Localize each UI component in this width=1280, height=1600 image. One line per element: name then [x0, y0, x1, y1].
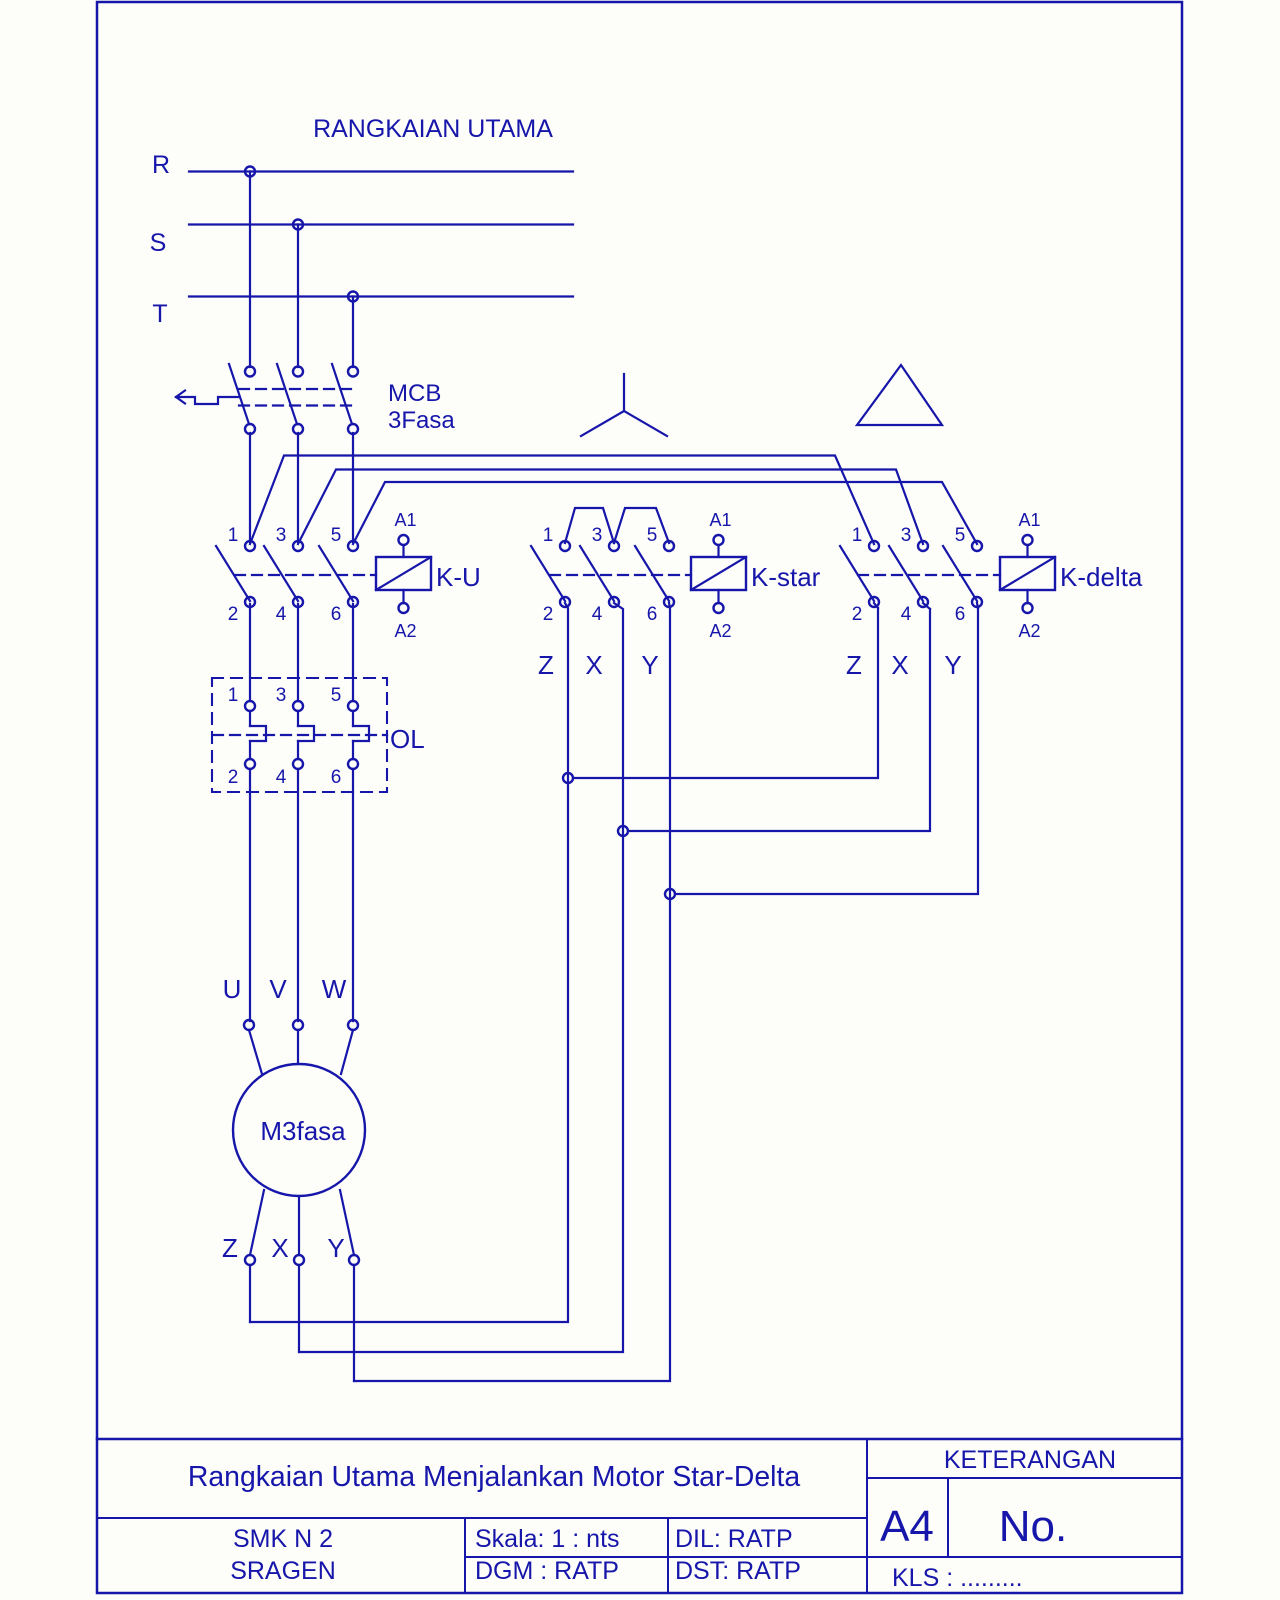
- svg-text:1: 1: [852, 525, 863, 546]
- stub motor body to Y: [340, 1190, 354, 1255]
- motor terminal U: [244, 1020, 254, 1030]
- svg-text:No.: No.: [999, 1502, 1067, 1551]
- svg-text:DIL: RATP: DIL: RATP: [675, 1525, 793, 1553]
- svg-text:3: 3: [276, 685, 287, 706]
- svg-text:U: U: [223, 974, 242, 1004]
- svg-text:5: 5: [647, 525, 658, 546]
- svg-text:Skala: 1 : nts: Skala: 1 : nts: [475, 1525, 620, 1553]
- wire node Y to K-delta 6: [675, 608, 978, 894]
- star symbol: [581, 374, 667, 436]
- contactor K-U coil K-U: [376, 557, 431, 590]
- stub motor body to X: [298, 1196, 300, 1255]
- svg-text:A1: A1: [1018, 510, 1040, 530]
- node S tap: [293, 220, 303, 230]
- OL heater element pin 3: [276, 685, 314, 759]
- svg-text:1: 1: [228, 685, 239, 706]
- svg-text:K-star: K-star: [751, 562, 821, 592]
- svg-text:2: 2: [228, 604, 239, 625]
- wire motor X down: [298, 1265, 300, 1352]
- svg-text:6: 6: [331, 767, 342, 788]
- contactor K-star contact blade 3-4: [580, 546, 614, 601]
- phase line T: [189, 295, 573, 297]
- contactor K-star contact pin 4: [592, 597, 619, 625]
- motor terminal V: [293, 1020, 303, 1030]
- contactor K-U contact pin 1: [228, 525, 255, 551]
- wire OL 2 to motor U: [249, 769, 251, 1021]
- wire K-delta pin 6 jog: [977, 603, 978, 608]
- stub W to motor body: [341, 1030, 353, 1074]
- svg-text:5: 5: [331, 525, 342, 546]
- contactor K-U contact blade 1-2: [216, 546, 250, 601]
- svg-text:S: S: [150, 229, 167, 257]
- node R tap: [245, 167, 255, 177]
- wire R down to MCB pole 1: [249, 172, 251, 368]
- svg-text:K-delta: K-delta: [1060, 562, 1143, 592]
- svg-text:3: 3: [276, 525, 287, 546]
- svg-text:4: 4: [592, 604, 603, 625]
- wire S down to MCB pole 2: [297, 225, 299, 368]
- svg-text:Y: Y: [944, 650, 961, 680]
- OL heater element pin 5: [331, 685, 369, 759]
- svg-text:Z: Z: [846, 650, 862, 680]
- svg-text:DST: RATP: DST: RATP: [675, 1557, 801, 1585]
- svg-text:2: 2: [543, 604, 554, 625]
- stub V to motor body: [297, 1030, 299, 1064]
- wire OL 4 to motor V: [297, 769, 299, 1021]
- delta symbol: [857, 365, 942, 425]
- svg-text:Z: Z: [538, 650, 554, 680]
- svg-text:SMK N 2: SMK N 2: [233, 1525, 333, 1553]
- svg-text:SRAGEN: SRAGEN: [230, 1557, 336, 1585]
- contactor K-delta contact blade 1-2: [840, 546, 874, 601]
- MCB pole 3 contact: [332, 364, 358, 434]
- svg-text:1: 1: [543, 525, 554, 546]
- svg-text:3: 3: [592, 525, 603, 546]
- motor terminal W: [348, 1020, 358, 1030]
- OL pin 6: [331, 759, 358, 788]
- svg-text:DGM : RATP: DGM : RATP: [475, 1557, 619, 1585]
- motor M3fasa: [233, 1064, 365, 1196]
- contactor K-star contact blade 1-2: [531, 546, 565, 601]
- svg-text:5: 5: [331, 685, 342, 706]
- wire K-star 6 to node Y to motor Y: [354, 603, 670, 1381]
- title block: [97, 1439, 1182, 1593]
- svg-text:A2: A2: [709, 621, 731, 641]
- contactor K-delta contact pin 2: [852, 597, 879, 625]
- svg-text:6: 6: [647, 604, 658, 625]
- svg-text:A2: A2: [1018, 621, 1040, 641]
- svg-text:5: 5: [955, 525, 966, 546]
- contactor K-delta contact pin 3: [901, 525, 928, 551]
- svg-text:4: 4: [276, 767, 287, 788]
- wire motor Z down: [249, 1265, 251, 1322]
- svg-text:A4: A4: [880, 1502, 934, 1551]
- svg-text:Y: Y: [641, 650, 658, 680]
- svg-text:A1: A1: [709, 510, 731, 530]
- contactor K-delta contact pin 4: [901, 597, 928, 625]
- wire K-U 2 to OL 1: [249, 604, 251, 701]
- svg-text:4: 4: [276, 604, 287, 625]
- node Z junction: [563, 773, 573, 783]
- MCB trip arrow: [176, 391, 239, 405]
- node X junction: [618, 826, 628, 836]
- wire node Z to K-delta 2: [573, 608, 878, 778]
- contactor K-U coil terminal A1: [394, 510, 416, 557]
- contactor K-delta contact blade 3-4: [889, 546, 923, 601]
- contactor K-delta contact pin 5: [955, 525, 982, 551]
- svg-text:W: W: [322, 974, 347, 1004]
- node Y junction: [665, 889, 675, 899]
- svg-text:6: 6: [955, 604, 966, 625]
- wire K-star 4 to node X to motor X: [299, 603, 623, 1352]
- svg-text:R: R: [152, 151, 170, 179]
- contactor K-U contact pin 3: [276, 525, 303, 551]
- svg-text:3Fasa: 3Fasa: [388, 407, 455, 434]
- svg-text:X: X: [271, 1233, 288, 1263]
- wire OL 6 to motor W: [352, 769, 354, 1021]
- contactor K-star contact pin 1: [543, 525, 570, 551]
- svg-text:M3fasa: M3fasa: [260, 1116, 346, 1146]
- wire K-delta pin 2 jog: [874, 603, 878, 608]
- stub motor body to Z: [250, 1190, 264, 1255]
- contactor K-U linkage dashed line: [235, 574, 376, 576]
- svg-text:T: T: [152, 300, 167, 328]
- MCB pole 2 contact: [277, 364, 303, 434]
- contactor K-delta contact blade 5-6: [943, 546, 977, 601]
- contactor K-U contact pin 5: [331, 525, 358, 551]
- contactor K-U contact pin 4: [276, 597, 303, 625]
- svg-text:RANGKAIAN UTAMA: RANGKAIAN UTAMA: [313, 115, 553, 143]
- contactor K-star contact pin 2: [543, 597, 570, 625]
- overload relay OL dashed box: [212, 678, 387, 792]
- contactor K-U contact blade 5-6: [319, 546, 353, 601]
- svg-text:X: X: [585, 650, 602, 680]
- wire K-delta pin 4 jog: [923, 603, 930, 609]
- svg-text:A2: A2: [394, 621, 416, 641]
- svg-text:4: 4: [901, 604, 912, 625]
- wire T down to MCB pole 3: [352, 297, 354, 368]
- wire K-U 4 to OL 3: [297, 604, 299, 701]
- wire phase R bus to K-delta pin 1: [250, 456, 874, 545]
- OL pin 2: [228, 759, 255, 788]
- svg-text:V: V: [269, 974, 287, 1004]
- svg-text:OL: OL: [390, 724, 425, 754]
- OL heater element pin 1: [228, 685, 266, 759]
- contactor K-star coil terminal A1: [709, 510, 731, 557]
- contactor K-star contact pin 5: [647, 525, 674, 551]
- svg-text:MCB: MCB: [388, 380, 441, 407]
- contactor K-delta coil K-delta: [1000, 557, 1055, 590]
- motor terminal X: [294, 1255, 304, 1265]
- wire phase T bus to K-delta pin 5: [353, 482, 977, 544]
- wire MCB 4 to K-U pin 3: [297, 433, 299, 542]
- MCB pole 1 contact: [229, 364, 255, 434]
- svg-text:KLS : .........: KLS : .........: [892, 1564, 1023, 1592]
- svg-text:2: 2: [852, 604, 863, 625]
- contactor K-star coil terminal A2: [709, 590, 731, 641]
- contactor K-delta contact pin 6: [955, 597, 982, 625]
- contactor K-star contact blade 5-6: [635, 546, 669, 601]
- K-star star-point bridge 1-3: [565, 508, 614, 543]
- contactor K-U contact blade 3-4: [264, 546, 298, 601]
- contactor K-delta coil terminal A1: [1018, 510, 1040, 557]
- phase line R: [189, 170, 573, 172]
- svg-text:Y: Y: [327, 1233, 344, 1263]
- node T tap: [348, 292, 358, 302]
- motor terminal Z: [245, 1255, 255, 1265]
- svg-text:6: 6: [331, 604, 342, 625]
- wire MCB 6 to K-U pin 5: [352, 433, 354, 542]
- contactor K-delta contact pin 1: [852, 525, 879, 551]
- stub U to motor body: [249, 1030, 262, 1074]
- svg-text:K-U: K-U: [436, 562, 481, 592]
- wire phase S bus to K-delta pin 3: [298, 470, 923, 545]
- wire K-U 6 to OL 5: [352, 604, 354, 701]
- svg-text:1: 1: [228, 525, 239, 546]
- contactor K-delta coil terminal A2: [1018, 590, 1040, 641]
- OL linkage dashed line: [213, 734, 387, 736]
- contactor K-U coil terminal A2: [394, 590, 416, 641]
- svg-text:3: 3: [901, 525, 912, 546]
- motor terminal Y: [349, 1255, 359, 1265]
- svg-text:Rangkaian Utama Menjalankan Mo: Rangkaian Utama Menjalankan Motor Star-D…: [188, 1461, 800, 1493]
- svg-text:A1: A1: [394, 510, 416, 530]
- phase line S: [189, 223, 573, 225]
- MCB label: [388, 380, 455, 434]
- K-star star-point bridge 3-5: [614, 508, 669, 543]
- svg-text:KETERANGAN: KETERANGAN: [944, 1446, 1116, 1474]
- wire motor Y down: [353, 1265, 355, 1381]
- svg-text:Z: Z: [222, 1233, 238, 1263]
- OL pin 4: [276, 759, 303, 788]
- contactor K-U contact pin 2: [228, 597, 255, 625]
- wire MCB 2 to K-U pin 1: [249, 433, 251, 542]
- contactor K-star contact pin 3: [592, 525, 619, 551]
- contactor K-star contact pin 6: [647, 597, 674, 625]
- contactor K-star coil K-star: [691, 557, 746, 590]
- label SMK N 2 SRAGEN: [230, 1525, 336, 1585]
- contactor K-star linkage dashed line: [550, 574, 691, 576]
- contactor K-delta linkage dashed line: [858, 574, 1000, 576]
- MCB linkage dashed lines: [239, 389, 355, 406]
- svg-text:2: 2: [228, 767, 239, 788]
- svg-text:X: X: [891, 650, 908, 680]
- wire K-star 2 to node Z to motor Z: [250, 603, 568, 1322]
- contactor K-U contact pin 6: [331, 597, 358, 625]
- wire node X to K-delta 4: [628, 609, 930, 831]
